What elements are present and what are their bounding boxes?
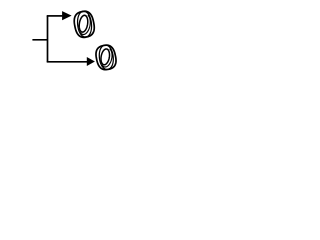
wire: top branch: [47, 15, 63, 17]
wire: vertical split: [47, 16, 49, 62]
arrowhead top: [62, 11, 72, 20]
ring core 1 (top toroid): [74, 11, 94, 37]
wire: bottom branch: [47, 61, 87, 63]
ring core 2 (bottom toroid): [96, 45, 116, 70]
arrowhead bottom: [87, 57, 95, 66]
wire: input stub: [32, 39, 47, 41]
